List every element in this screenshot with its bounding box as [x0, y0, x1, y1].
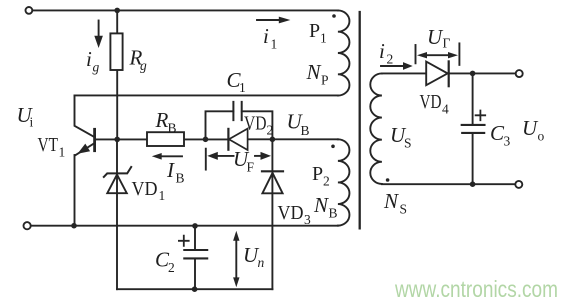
wire: C2 leads [194, 226, 196, 289]
transformer winding P2/NB [338, 139, 350, 225]
svg-text:B: B [329, 206, 338, 221]
transformer primary P1/NP winding [338, 10, 350, 95]
svg-text:I: I [166, 158, 175, 182]
node: C2 top [192, 223, 198, 229]
wire: Rg vertical [116, 10, 118, 139]
svg-text:i: i [86, 47, 92, 71]
svg-text:2: 2 [323, 174, 330, 189]
svg-text:F: F [247, 160, 255, 175]
phase dot NS [386, 178, 390, 182]
svg-text:B: B [168, 121, 177, 136]
svg-text:g: g [140, 58, 147, 73]
voltage UF measure [206, 149, 271, 170]
transformer secondary NS winding [370, 73, 382, 184]
svg-text:1: 1 [271, 37, 278, 52]
node: emitter on bottom rail [71, 223, 77, 229]
svg-text:S: S [400, 202, 408, 217]
wire: VD4 to output [449, 72, 516, 74]
svg-text:1: 1 [320, 31, 327, 46]
wire: base rail left [95, 138, 228, 140]
svg-text:Γ: Γ [443, 36, 451, 51]
node: C2 bottom [192, 286, 198, 292]
node: Rg top [114, 8, 120, 14]
svg-text:i: i [379, 39, 385, 63]
wire: VD1 vertical [116, 139, 118, 289]
svg-text:1: 1 [239, 80, 246, 95]
svg-text:B: B [301, 123, 310, 138]
svg-text:i: i [30, 115, 34, 130]
output terminal top [516, 70, 523, 77]
svg-text:VD: VD [420, 91, 442, 113]
output terminal bottom [515, 181, 522, 188]
input terminal bottom-left [24, 222, 31, 229]
current arrow i1 [257, 17, 290, 24]
transformer core [359, 12, 361, 228]
svg-text:1: 1 [59, 145, 66, 160]
svg-text:4: 4 [442, 102, 449, 117]
svg-text:2: 2 [267, 123, 274, 138]
wire: base rail right (U_B to P2) [248, 138, 338, 140]
wire: collector / P1 bottom lead [75, 94, 338, 96]
svg-text:3: 3 [304, 212, 311, 227]
svg-text:R: R [155, 108, 169, 132]
svg-text:B: B [176, 171, 185, 186]
wire: secondary bottom [382, 183, 515, 185]
svg-text:2: 2 [168, 260, 175, 275]
svg-text:P: P [312, 163, 323, 185]
transistor VT1 [75, 95, 95, 225]
capacitor C2 [179, 236, 207, 259]
wire: C1 branch [206, 111, 273, 139]
svg-text:1: 1 [159, 188, 166, 203]
current arrow i2 [381, 62, 413, 70]
phase dot P2 [331, 145, 335, 149]
node: C3 bottom [470, 181, 476, 187]
svg-text:P: P [309, 20, 320, 42]
node: base / Rg-VD1 [114, 137, 120, 143]
voltage UGamma measure [416, 43, 460, 65]
wire: secondary top [382, 72, 426, 74]
capacitor C1 [233, 102, 241, 120]
voltage arrow Un [233, 231, 239, 287]
svg-text:www.cntronics.com: www.cntronics.com [394, 276, 558, 302]
wire: bottom loop [117, 288, 272, 290]
diode VD4 [426, 61, 449, 86]
diode VD2 [228, 129, 247, 150]
svg-text:i: i [263, 24, 269, 48]
svg-text:g: g [93, 60, 100, 75]
resistor RB [147, 132, 184, 146]
svg-text:N: N [383, 189, 399, 213]
capacitor C3 [462, 111, 486, 133]
svg-text:o: o [538, 129, 545, 144]
zener diode VD1 [104, 167, 131, 193]
node: VD4-C3 [470, 71, 476, 77]
current arrow IB [152, 153, 182, 160]
wire: top rail [32, 9, 338, 11]
svg-text:VD: VD [132, 178, 158, 200]
wire: C3 leads [472, 73, 474, 184]
svg-text:N: N [313, 193, 329, 217]
diode VD3 [262, 171, 283, 193]
node: RB-C1-VD2 [203, 137, 209, 143]
node: VD2-C1-VD3 [270, 137, 276, 143]
input terminal top-left [26, 7, 33, 14]
wire: VD3 vertical [271, 139, 273, 289]
current arrow ig [94, 21, 103, 49]
svg-text:VD: VD [244, 113, 267, 135]
resistor Rg [110, 33, 122, 70]
svg-text:N: N [306, 60, 322, 84]
svg-text:S: S [404, 136, 412, 151]
phase dot P1 [332, 14, 336, 18]
svg-text:3: 3 [504, 134, 511, 149]
svg-text:VT: VT [38, 134, 59, 156]
svg-text:2: 2 [387, 52, 394, 67]
wire: bottom rail [31, 225, 338, 227]
svg-text:VD: VD [278, 202, 304, 224]
svg-text:n: n [258, 255, 265, 270]
svg-text:U: U [522, 116, 539, 140]
svg-text:P: P [321, 73, 329, 88]
svg-text:U: U [427, 25, 444, 49]
